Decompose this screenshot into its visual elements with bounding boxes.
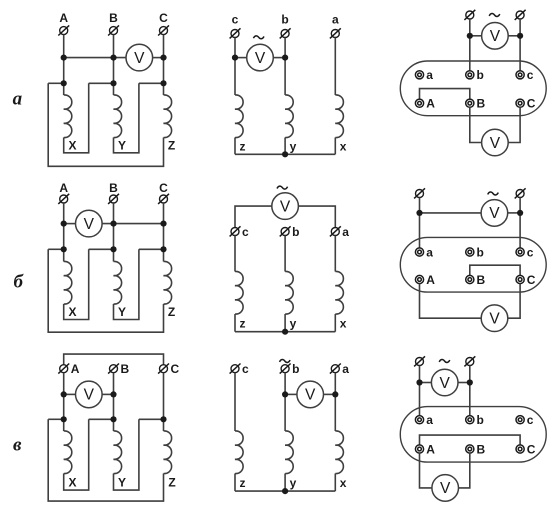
node star point y bbox=[282, 151, 288, 157]
wire supply1 down to b bbox=[469, 19, 471, 71]
wire A down to voltmeter bbox=[420, 284, 482, 319]
svg-text:V: V bbox=[84, 387, 95, 404]
wire stub to B winding top bbox=[89, 248, 114, 250]
node A winding top bbox=[61, 80, 67, 86]
wire X end to B top (delta link) bbox=[64, 419, 89, 490]
AC source mark bbox=[277, 186, 288, 189]
terminal a bbox=[330, 28, 341, 38]
wire voltmeter to B bbox=[459, 453, 470, 488]
board terminal c bbox=[516, 71, 524, 79]
board terminal c bbox=[516, 416, 524, 424]
svg-text:C: C bbox=[527, 442, 536, 456]
svg-text:X: X bbox=[68, 476, 76, 490]
terminal a bbox=[330, 226, 341, 236]
board terminal b bbox=[466, 416, 474, 424]
board terminal B bbox=[466, 99, 474, 107]
svg-text:b: b bbox=[477, 245, 484, 259]
svg-text:а: а bbox=[13, 88, 23, 109]
svg-text:B: B bbox=[121, 362, 130, 376]
wire Z end to A top (delta link) bbox=[48, 249, 163, 332]
svg-text:B: B bbox=[109, 11, 118, 25]
winding c-z bbox=[235, 271, 243, 314]
terminal b bbox=[280, 28, 291, 38]
voltmeter PV12 (A-B check) bbox=[432, 475, 459, 502]
wire V-C bbox=[153, 57, 164, 59]
terminal B bbox=[108, 194, 119, 204]
voltmeter PV10 (between b and a) bbox=[297, 381, 324, 408]
board terminal A bbox=[415, 445, 423, 453]
wire phase C vertical bbox=[163, 203, 165, 262]
wire z down bbox=[234, 314, 236, 332]
node supply c bbox=[517, 33, 523, 39]
node C winding top bbox=[160, 246, 166, 252]
wire Y end to C top (delta link) bbox=[114, 249, 139, 319]
svg-text:c: c bbox=[527, 245, 534, 259]
svg-text:z: z bbox=[240, 317, 246, 331]
wire c up and over to voltmeter bbox=[235, 206, 272, 227]
svg-text:V: V bbox=[440, 375, 451, 392]
node C bus bbox=[160, 55, 166, 61]
jumper B-C bbox=[470, 265, 520, 275]
svg-text:Y: Y bbox=[118, 305, 126, 319]
node b bbox=[282, 55, 288, 61]
wire c to voltmeter bbox=[235, 57, 247, 59]
winding c-z bbox=[235, 431, 243, 474]
wire voltmeter to a bbox=[324, 393, 336, 395]
svg-text:V: V bbox=[134, 50, 145, 67]
node b bbox=[282, 391, 288, 397]
board terminal b bbox=[466, 248, 474, 256]
wire phase b vertical bbox=[284, 38, 286, 96]
wire phase b vertical bbox=[284, 236, 286, 272]
svg-text:V: V bbox=[440, 480, 451, 497]
svg-text:b: b bbox=[292, 225, 299, 239]
node A bus bbox=[61, 55, 67, 61]
node A bus bbox=[61, 221, 67, 227]
node B winding top bbox=[110, 80, 116, 86]
voltmeter PV3 (supply) bbox=[482, 23, 509, 50]
svg-text:V: V bbox=[489, 205, 500, 222]
wire phase A vertical bbox=[63, 373, 65, 431]
wire stub to B winding top bbox=[89, 418, 114, 420]
svg-text:A: A bbox=[59, 181, 68, 195]
winding A-X bbox=[64, 431, 72, 474]
winding A-X bbox=[64, 95, 72, 138]
svg-text:c: c bbox=[232, 13, 239, 27]
svg-text:B: B bbox=[109, 181, 118, 195]
board terminal b bbox=[466, 71, 474, 79]
svg-text:x: x bbox=[340, 476, 347, 490]
node supply a bbox=[416, 210, 422, 216]
winding C-Z bbox=[164, 261, 172, 304]
svg-text:Y: Y bbox=[118, 139, 126, 153]
wire phase b vertical bbox=[284, 373, 286, 431]
svg-text:V: V bbox=[490, 135, 501, 152]
svg-text:Z: Z bbox=[168, 476, 175, 490]
wire star bridge z-y-x bbox=[235, 153, 335, 155]
board terminal A bbox=[415, 99, 423, 107]
wire voltmeter to C bbox=[508, 107, 520, 142]
wire phase B vertical bbox=[113, 203, 115, 262]
wire stub to A winding top bbox=[48, 248, 64, 250]
svg-text:a: a bbox=[426, 413, 433, 427]
node star point y bbox=[282, 329, 288, 335]
svg-text:c: c bbox=[527, 413, 534, 427]
wire voltmeter to b bbox=[273, 57, 285, 59]
wire phase B vertical bbox=[113, 35, 115, 95]
node A winding top bbox=[61, 416, 67, 422]
svg-text:y: y bbox=[290, 317, 297, 331]
svg-text:C: C bbox=[171, 362, 180, 376]
svg-text:b: b bbox=[281, 13, 288, 27]
voltmeter PV8 (A-C check) bbox=[481, 305, 508, 332]
svg-text:c: c bbox=[527, 68, 534, 82]
winding a-x bbox=[335, 271, 343, 314]
wire voltmeter to junction bbox=[458, 382, 470, 384]
board terminal a bbox=[415, 416, 423, 424]
board terminal B bbox=[466, 275, 474, 283]
voltmeter PV7 (supply) bbox=[481, 200, 508, 227]
terminal C bbox=[158, 194, 169, 204]
wire Y end to C top (delta link) bbox=[114, 419, 139, 490]
wire phase C vertical bbox=[163, 373, 165, 431]
board terminal C bbox=[516, 445, 524, 453]
svg-text:C: C bbox=[527, 97, 536, 111]
node supply a bbox=[416, 379, 422, 385]
node C winding top bbox=[160, 80, 166, 86]
svg-text:V: V bbox=[489, 311, 500, 328]
terminal c bbox=[230, 226, 241, 236]
wire bus A-B-V bbox=[64, 57, 126, 59]
AC source mark bbox=[253, 36, 264, 39]
svg-text:C: C bbox=[159, 181, 168, 195]
supply terminal 2 bbox=[464, 356, 475, 366]
wire voltmeter to junction bbox=[508, 35, 520, 37]
svg-text:a: a bbox=[426, 245, 433, 259]
wire x down bbox=[334, 138, 336, 155]
svg-text:a: a bbox=[342, 225, 349, 239]
AC source mark bbox=[439, 360, 450, 363]
wire voltmeter to C bbox=[508, 284, 520, 319]
svg-text:Y: Y bbox=[118, 476, 126, 490]
wire A down to voltmeter bbox=[420, 453, 432, 488]
wire supply2 down to c bbox=[519, 19, 521, 71]
wire junction to voltmeter bbox=[470, 35, 482, 37]
wire junction to voltmeter bbox=[420, 382, 432, 384]
svg-text:б: б bbox=[13, 272, 24, 293]
jumper A-C bbox=[420, 435, 521, 445]
svg-text:a: a bbox=[332, 13, 339, 27]
svg-text:X: X bbox=[68, 305, 76, 319]
wire stub to B winding top bbox=[89, 82, 114, 84]
winding a-x bbox=[335, 431, 343, 474]
terminal C bbox=[158, 25, 169, 35]
terminal B bbox=[108, 364, 119, 374]
wire supply2 down to b bbox=[469, 366, 471, 416]
winding b-y bbox=[285, 271, 293, 314]
wire b to voltmeter bbox=[285, 393, 297, 395]
svg-text:V: V bbox=[255, 50, 266, 67]
wire Z end to A top (delta link) bbox=[48, 419, 163, 501]
svg-text:c: c bbox=[242, 362, 249, 376]
wire star bridge z-y-x bbox=[235, 331, 335, 333]
wire stub to A winding top bbox=[48, 82, 64, 84]
wire supply1 down to a bbox=[419, 198, 421, 249]
svg-text:Z: Z bbox=[168, 139, 175, 153]
svg-text:A: A bbox=[426, 97, 435, 111]
svg-text:A: A bbox=[426, 442, 435, 456]
wire y down bbox=[284, 474, 286, 492]
node B bus bbox=[110, 221, 116, 227]
svg-text:B: B bbox=[477, 97, 486, 111]
wire stub to C winding top bbox=[139, 82, 164, 84]
node supply c bbox=[517, 210, 523, 216]
winding b-y bbox=[285, 431, 293, 474]
svg-text:z: z bbox=[240, 476, 246, 490]
wire star bridge z-y-x bbox=[235, 490, 335, 492]
voltmeter PV6 (between c and a) bbox=[272, 193, 299, 220]
winding b-y bbox=[285, 95, 293, 138]
svg-text:A: A bbox=[71, 362, 80, 376]
svg-text:y: y bbox=[290, 139, 297, 153]
terminal A bbox=[58, 364, 69, 374]
wire stub to A winding top bbox=[48, 418, 64, 420]
svg-text:b: b bbox=[477, 68, 484, 82]
board terminal C bbox=[516, 275, 524, 283]
wire strap A to C bbox=[64, 354, 164, 365]
board terminal a bbox=[415, 248, 423, 256]
voltmeter PV2 (between c and b) bbox=[247, 44, 274, 71]
wire z down bbox=[234, 138, 236, 155]
wire Z end to A top (delta link) bbox=[48, 83, 163, 166]
wire phase C vertical bbox=[163, 35, 165, 95]
node star point y bbox=[282, 488, 288, 494]
svg-text:b: b bbox=[477, 413, 484, 427]
winding C-Z bbox=[164, 431, 172, 474]
wire voltmeter to junction bbox=[508, 212, 520, 214]
winding c-z bbox=[235, 95, 243, 138]
svg-text:B: B bbox=[477, 273, 486, 287]
svg-text:V: V bbox=[84, 216, 95, 233]
voltmeter PV1 (between B and C) bbox=[126, 44, 153, 71]
wire x down bbox=[334, 314, 336, 332]
voltmeter PV4 (B-C check) bbox=[482, 129, 509, 156]
svg-text:A: A bbox=[426, 273, 435, 287]
node A bbox=[61, 391, 67, 397]
svg-text:A: A bbox=[59, 11, 68, 25]
svg-text:V: V bbox=[280, 198, 291, 215]
winding C-Z bbox=[164, 95, 172, 138]
svg-text:y: y bbox=[290, 476, 297, 490]
node supply b bbox=[467, 379, 473, 385]
wire X end to B top (delta link) bbox=[64, 249, 89, 319]
supply terminal 1 bbox=[414, 188, 425, 198]
jumper A-B bbox=[420, 89, 470, 100]
wire phase a vertical bbox=[334, 373, 336, 431]
winding B-Y bbox=[114, 95, 122, 138]
node A winding top bbox=[61, 246, 67, 252]
wire A to voltmeter bbox=[64, 223, 76, 225]
board terminal A bbox=[415, 275, 423, 283]
AC source mark bbox=[488, 192, 499, 195]
svg-text:C: C bbox=[159, 11, 168, 25]
voltmeter PV5 (between A and B) bbox=[76, 210, 103, 237]
wire junction to voltmeter bbox=[420, 212, 482, 214]
board terminal B bbox=[466, 445, 474, 453]
wire z down bbox=[234, 474, 236, 492]
wire phase c vertical bbox=[234, 373, 236, 431]
AC source mark bbox=[280, 360, 291, 363]
svg-text:b: b bbox=[292, 362, 299, 376]
terminal B bbox=[108, 25, 119, 35]
node B bbox=[110, 391, 116, 397]
voltmeter PV9 (between A and B) bbox=[76, 381, 103, 408]
terminal C bbox=[158, 364, 169, 374]
terminal b bbox=[280, 364, 291, 374]
supply terminal 1 bbox=[464, 10, 475, 20]
terminal b bbox=[280, 226, 291, 236]
board terminal a bbox=[415, 71, 423, 79]
svg-text:V: V bbox=[305, 387, 316, 404]
svg-text:x: x bbox=[340, 317, 347, 331]
wire y down bbox=[284, 314, 286, 332]
node B winding top bbox=[110, 246, 116, 252]
svg-text:z: z bbox=[240, 139, 246, 153]
node a bbox=[332, 391, 338, 397]
terminal A bbox=[58, 194, 69, 204]
wire phase A vertical bbox=[63, 35, 65, 95]
wire B down to voltmeter bbox=[470, 107, 482, 142]
terminal board outline bbox=[400, 237, 546, 292]
svg-text:x: x bbox=[340, 139, 347, 153]
svg-text:V: V bbox=[490, 28, 501, 45]
board terminal C bbox=[516, 99, 524, 107]
wire phase a vertical bbox=[334, 38, 336, 96]
svg-text:в: в bbox=[13, 435, 22, 456]
wire voltmeter to B and C bbox=[102, 223, 163, 225]
node supply b bbox=[467, 33, 473, 39]
wire voltmeter over and down to a bbox=[298, 206, 335, 227]
wire x down bbox=[334, 474, 336, 492]
node C winding top bbox=[160, 416, 166, 422]
board terminal c bbox=[516, 248, 524, 256]
voltmeter PV11 (supply) bbox=[431, 369, 458, 396]
AC source mark bbox=[489, 14, 500, 17]
wire supply1 down to a bbox=[419, 366, 421, 416]
wire y down bbox=[284, 138, 286, 155]
wire X end to B top (delta link) bbox=[64, 83, 89, 153]
node B bus bbox=[110, 55, 116, 61]
supply terminal 2 bbox=[515, 188, 526, 198]
svg-text:a: a bbox=[342, 362, 349, 376]
wire supply2 down to c bbox=[519, 198, 521, 249]
wire stub to C winding top bbox=[139, 418, 164, 420]
wire Y end to C top (delta link) bbox=[114, 83, 139, 153]
svg-text:Z: Z bbox=[168, 305, 175, 319]
wire stub to C winding top bbox=[139, 248, 164, 250]
wire A to voltmeter bbox=[64, 393, 76, 395]
terminal A bbox=[58, 25, 69, 35]
winding B-Y bbox=[114, 261, 122, 304]
wire phase c vertical bbox=[234, 236, 236, 272]
wire phase A vertical bbox=[63, 203, 65, 262]
supply terminal 2 bbox=[515, 10, 526, 20]
node B winding top bbox=[110, 416, 116, 422]
winding B-Y bbox=[114, 431, 122, 474]
winding a-x bbox=[335, 95, 343, 138]
terminal a bbox=[330, 364, 341, 374]
wire voltmeter to B bbox=[102, 393, 113, 395]
wire phase a vertical bbox=[334, 236, 336, 272]
node c bbox=[232, 55, 238, 61]
wire phase B vertical bbox=[113, 373, 115, 431]
svg-text:C: C bbox=[527, 273, 536, 287]
terminal c bbox=[230, 364, 241, 374]
svg-text:a: a bbox=[426, 68, 433, 82]
supply terminal 1 bbox=[414, 356, 425, 366]
terminal c bbox=[230, 28, 241, 38]
wire phase c vertical bbox=[234, 38, 236, 96]
svg-text:X: X bbox=[68, 139, 76, 153]
winding A-X bbox=[64, 261, 72, 304]
svg-text:B: B bbox=[477, 442, 486, 456]
terminal board outline bbox=[400, 61, 546, 116]
terminal board outline bbox=[400, 407, 546, 463]
svg-text:c: c bbox=[242, 225, 249, 239]
node C bus bbox=[160, 221, 166, 227]
